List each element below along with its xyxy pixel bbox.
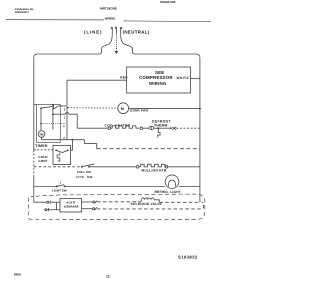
svg-text:LIGHT SW.: LIGHT SW.	[52, 189, 67, 193]
timer cam dotted link	[42, 123, 67, 125]
svg-text:FULL ON: FULL ON	[77, 170, 91, 174]
svg-text:HTR. SW.: HTR. SW.	[76, 175, 94, 179]
solenoid valve lower dashed wire	[97, 202, 204, 209]
svg-text:MRT18CNE: MRT18CNE	[100, 6, 117, 10]
svg-text:6909: 6909	[14, 273, 21, 277]
svg-text:ICEMAKER: ICEMAKER	[64, 205, 79, 208]
node: timer terminal 2	[52, 113, 54, 115]
wire: plug neutral side down-right to right rail	[121, 33, 200, 58]
node: timer contact lower	[40, 107, 42, 109]
svg-text:TM: TM	[39, 132, 44, 136]
wire: vertical bus from timer contacts to compressor feed	[66, 80, 68, 140]
node: evap fan feed tap	[67, 107, 69, 109]
wire: evap fan to right rail	[129, 107, 200, 109]
svg-text:(LINE): (LINE)	[84, 29, 102, 34]
right rail (neutral)	[199, 58, 201, 203]
header publication no	[15, 8, 34, 14]
wire: compressor feed horizontal run	[67, 79, 127, 81]
cold control bellows	[57, 153, 60, 161]
header rule right of WIRING	[124, 20, 212, 23]
icemaker input bus	[56, 202, 58, 210]
wire rail to icemaker upper	[34, 199, 47, 202]
icemaker input connector lower	[45, 209, 47, 211]
wire: defrost line dashed to right rail	[176, 127, 200, 129]
wire from left rail to timer input	[34, 104, 37, 106]
svg-text:(NEUTRAL): (NEUTRAL)	[123, 29, 150, 34]
power plug prongs	[111, 27, 122, 33]
full on heater switch terminals	[81, 166, 83, 168]
timer switch arm lower	[41, 106, 52, 108]
wire: junction down to cold control output	[71, 140, 73, 151]
svg-text:TIMER: TIMER	[35, 144, 48, 148]
mullion line dashed from rail	[34, 166, 81, 168]
wire: timer input to pivot	[53, 105, 55, 109]
full on heater switch arm	[82, 164, 94, 167]
svg-text:M: M	[121, 107, 124, 111]
svg-text:S193832: S193832	[178, 254, 198, 259]
cold control box	[53, 145, 71, 164]
header WIRING label	[105, 17, 117, 21]
cold control contact terminals	[55, 149, 57, 151]
timer switch arm upper (to evap fan feed)	[54, 106, 66, 109]
wire from rail to cold control (dashed)	[34, 149, 53, 151]
wire: timer motor line	[42, 137, 85, 139]
svg-text:1: 1	[64, 115, 66, 119]
defrost thermostat sensing pigtail	[158, 129, 160, 138]
svg-text:WHITE: WHITE	[177, 76, 190, 80]
refrigerator light lamp	[165, 175, 179, 189]
header rule left of WIRING	[6, 19, 104, 21]
wire: timer motor branch vertical	[40, 108, 42, 130]
svg-text:4: 4	[63, 124, 65, 128]
svg-text:THERM.: THERM.	[154, 123, 169, 127]
svg-text:WIRING: WIRING	[149, 81, 167, 86]
timer box outline	[36, 105, 60, 143]
solenoid valve coil	[140, 200, 142, 202]
left rail (line)	[33, 58, 35, 150]
node: defrost thermostat junction	[157, 127, 159, 129]
cabinet dashed boundary loop	[29, 194, 205, 219]
wire: contact to defrost heater feed	[53, 113, 66, 115]
svg-text:3: 3	[64, 107, 66, 111]
wire: defrost feed down-leg	[69, 114, 78, 128]
evap fan motor	[118, 103, 129, 114]
auto icemaker box	[60, 199, 82, 212]
node: timer cam terminal	[40, 123, 42, 125]
wire: lamp to right rail	[179, 186, 200, 188]
wire: plug line side down-left to left rail	[34, 33, 113, 58]
node: timer contact pivot upper	[53, 108, 55, 110]
wire to mullion heater	[90, 166, 136, 168]
wire hop over compressor bus	[65, 113, 68, 115]
wire: rail to light switch	[34, 186, 57, 188]
svg-text:FRIGIDAIRE: FRIGIDAIRE	[160, 1, 176, 4]
node: junction timer motor line / cold control	[72, 139, 74, 141]
svg-text:2: 2	[60, 182, 62, 185]
timer pin numbers 3 1 4 2	[63, 107, 66, 140]
header model number	[100, 6, 117, 10]
node: junction at neutral rail	[199, 108, 201, 110]
svg-text:5995218217: 5995218217	[15, 11, 30, 14]
svg-text:SOLENOID VALVE: SOLENOID VALVE	[131, 202, 163, 206]
wire: step down to dashed neutral run	[85, 140, 97, 149]
node: timer input terminal	[52, 104, 54, 106]
connector plug pair on defrost line	[170, 127, 172, 129]
defrost heater line	[77, 127, 108, 129]
light switch terminals	[56, 185, 58, 187]
svg-text:AUTO: AUTO	[66, 200, 75, 204]
icemaker input connector upper	[47, 201, 49, 203]
svg-text:WIRING: WIRING	[105, 17, 117, 21]
svg-text:EVAP. FAN: EVAP. FAN	[130, 108, 148, 112]
label COLD CONT	[38, 155, 48, 163]
label DEFROST THERM.	[152, 120, 171, 128]
wire: timer terminal column	[52, 105, 54, 130]
svg-text:REFRIG. LIGHT: REFRIG. LIGHT	[155, 190, 182, 194]
svg-text:MULLION HTR.: MULLION HTR.	[142, 169, 168, 173]
wire to refrigerator light	[64, 186, 165, 188]
icemaker upper output connector	[82, 201, 93, 203]
svg-text:CONT: CONT	[38, 159, 47, 163]
mullion heater	[136, 165, 139, 168]
wire: defrost line to connector	[158, 127, 170, 129]
cold control switch arm	[56, 150, 68, 152]
wire: evap fan feed (dashed)	[68, 107, 118, 110]
defrost thermostat	[149, 126, 154, 129]
svg-text:12: 12	[106, 274, 110, 278]
compressor box	[127, 67, 191, 93]
ground prong wire and arrow	[115, 33, 117, 51]
wire: compressor box to right rail	[191, 78, 200, 80]
svg-text:COMPRESSOR: COMPRESSOR	[139, 75, 173, 80]
icemaker lower output connector	[82, 208, 93, 210]
light switch arm	[57, 185, 64, 187]
timer motor TM	[38, 131, 45, 138]
